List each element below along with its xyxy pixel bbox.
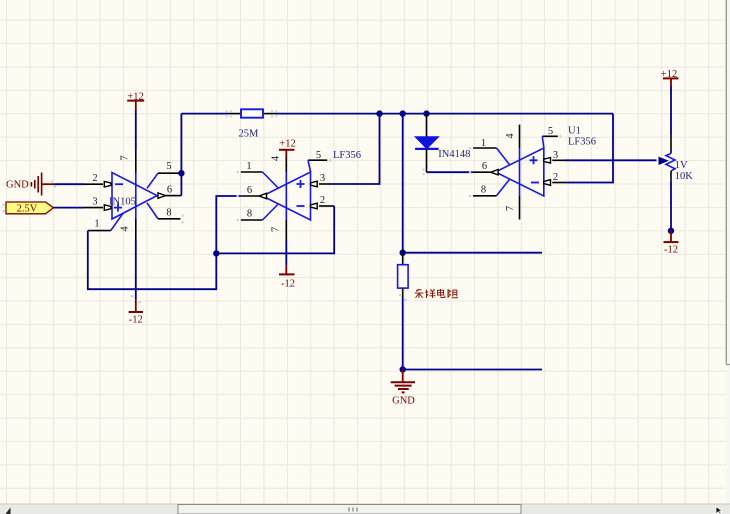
svg-text:10K: 10K — [675, 171, 694, 182]
net label 2.5V (yellow port) — [6, 202, 54, 214]
svg-text:4: 4 — [505, 133, 516, 139]
pin 8 — [147, 203, 181, 219]
svg-text:3: 3 — [553, 150, 558, 161]
svg-text:5: 5 — [316, 150, 321, 161]
svg-text:IN105: IN105 — [109, 196, 136, 207]
label 采样电阻 (sampling resistor, drawn strokes) — [415, 289, 459, 298]
node junction feedback — [213, 250, 219, 256]
pin 5 — [308, 150, 327, 172]
wiper arrow — [659, 157, 668, 164]
svg-text:+12: +12 — [279, 139, 295, 150]
wire junction to op-amp2 pin2 — [216, 206, 334, 253]
svg-text:IN4148: IN4148 — [438, 149, 470, 160]
wire 2.5V to pin3 — [54, 207, 85, 209]
svg-text:8: 8 — [247, 209, 252, 220]
pin 8 — [473, 179, 510, 196]
wire op-amp2 pin3 to top rail — [334, 114, 379, 184]
svg-text:-12: -12 — [664, 245, 678, 256]
pin 6 (output) — [241, 185, 267, 199]
wire +12 to pot — [670, 87, 672, 136]
mouse cursor — [716, 507, 722, 514]
op-amp LF356 (second, pointing left) — [241, 150, 361, 240]
svg-text:5: 5 — [166, 161, 171, 172]
triangle body — [112, 173, 157, 220]
svg-text:2: 2 — [92, 173, 97, 184]
wire op-amp1 pin1 feedback loop — [88, 196, 241, 289]
node junction pin5 — [178, 170, 184, 176]
wire +12 to pin7 — [135, 111, 137, 151]
pin 1 — [241, 161, 278, 188]
svg-text:U1: U1 — [568, 126, 581, 137]
svg-text:6: 6 — [247, 185, 252, 196]
resistor 25M — [239, 109, 264, 139]
node junction rail B — [400, 110, 406, 116]
pin 2 — [544, 172, 565, 185]
pin 2 — [84, 173, 111, 187]
power port GND (left) — [6, 173, 54, 196]
diode IN4148 — [415, 114, 470, 173]
svg-text:1: 1 — [94, 218, 99, 229]
wire resistor to gnd — [402, 298, 404, 370]
svg-text:8: 8 — [166, 207, 171, 218]
svg-text:7: 7 — [120, 155, 131, 160]
svg-text:25M: 25M — [239, 128, 260, 139]
svg-text:7: 7 — [505, 206, 516, 211]
svg-text:-12: -12 — [281, 279, 295, 290]
wire pot to -12 — [670, 181, 672, 231]
wire stub right (lower) — [403, 369, 542, 371]
svg-text:8: 8 — [481, 185, 486, 196]
pin 1 — [473, 138, 510, 165]
svg-text:7: 7 — [271, 227, 282, 232]
node junction rail A — [376, 110, 382, 116]
pin 7 — [505, 196, 520, 220]
wire diode to op-amp3 pin6 — [427, 171, 473, 173]
svg-text:LF356: LF356 — [333, 150, 361, 161]
pin 6 (output) — [473, 161, 498, 175]
op-amp U? IN105 — [84, 150, 181, 240]
node junction pot bottom — [668, 228, 674, 234]
svg-text:4: 4 — [120, 226, 131, 232]
pin 5 — [147, 161, 181, 189]
svg-text:1V: 1V — [675, 160, 688, 171]
pin 3 — [84, 196, 111, 210]
power +12 (pot) — [661, 69, 679, 87]
svg-text:-12: -12 — [129, 315, 143, 326]
svg-text:LF356: LF356 — [568, 137, 596, 148]
node junction gnd — [400, 366, 406, 372]
node junction rail C — [423, 110, 429, 116]
bottom scrollbar — [0, 504, 730, 514]
node junction sampling top — [400, 250, 406, 256]
svg-text:6: 6 — [482, 161, 487, 172]
resistor 采样电阻 (sampling) — [398, 253, 409, 298]
ground GND (earth) — [391, 370, 416, 407]
pin 3 — [311, 173, 335, 187]
svg-text:1: 1 — [481, 138, 486, 149]
power -12 (op-amp 1) — [129, 300, 143, 326]
wire pin4 to -12 — [135, 240, 137, 300]
svg-text:1: 1 — [246, 161, 251, 172]
wire top rail — [181, 113, 613, 115]
svg-text:2: 2 — [320, 195, 325, 206]
pin hot-end markers (faint) — [3, 110, 562, 303]
svg-text:2.5V: 2.5V — [17, 203, 38, 214]
pin 6 (output) — [158, 184, 181, 198]
wire op-amp3 pin3 to potentiometer wiper — [565, 159, 657, 161]
wire pins5/6 tie, up to top rail — [180, 114, 182, 196]
power -12 (pot) — [664, 231, 679, 256]
pin 5 — [542, 126, 558, 148]
svg-text:2: 2 — [553, 172, 558, 183]
pin 4 — [120, 219, 136, 240]
svg-text:4: 4 — [271, 155, 282, 161]
svg-text:6: 6 — [167, 184, 172, 195]
power +12 (op-amp 1) — [127, 92, 144, 111]
svg-text:GND: GND — [392, 395, 415, 406]
pin 2 — [311, 195, 335, 209]
wire sampling branch down from rail — [402, 114, 404, 253]
svg-text:3: 3 — [92, 196, 97, 207]
power +12 (op-amp 2) — [279, 139, 296, 158]
pin 7 — [120, 150, 136, 219]
pin 8 — [241, 204, 278, 220]
pin 7 — [271, 220, 287, 240]
wire GND to pin2 — [54, 183, 84, 185]
pin 4 — [271, 155, 287, 220]
power -12 (op-amp 2) — [279, 240, 295, 290]
op-amp U1 LF356 (third, pointing left) — [473, 125, 596, 220]
pin 1 — [88, 213, 123, 230]
svg-text:3: 3 — [320, 173, 325, 184]
pin 4 — [505, 125, 520, 196]
vertical scrollbar sliver — [726, 0, 730, 504]
wire op-amp3 pin2 feedback to rail right end — [565, 114, 613, 183]
wire stub right (upper) — [403, 252, 542, 254]
svg-text:GND: GND — [6, 180, 29, 191]
svg-text:5: 5 — [548, 126, 553, 137]
potentiometer 10K — [666, 136, 693, 182]
pin 3 — [544, 150, 565, 163]
